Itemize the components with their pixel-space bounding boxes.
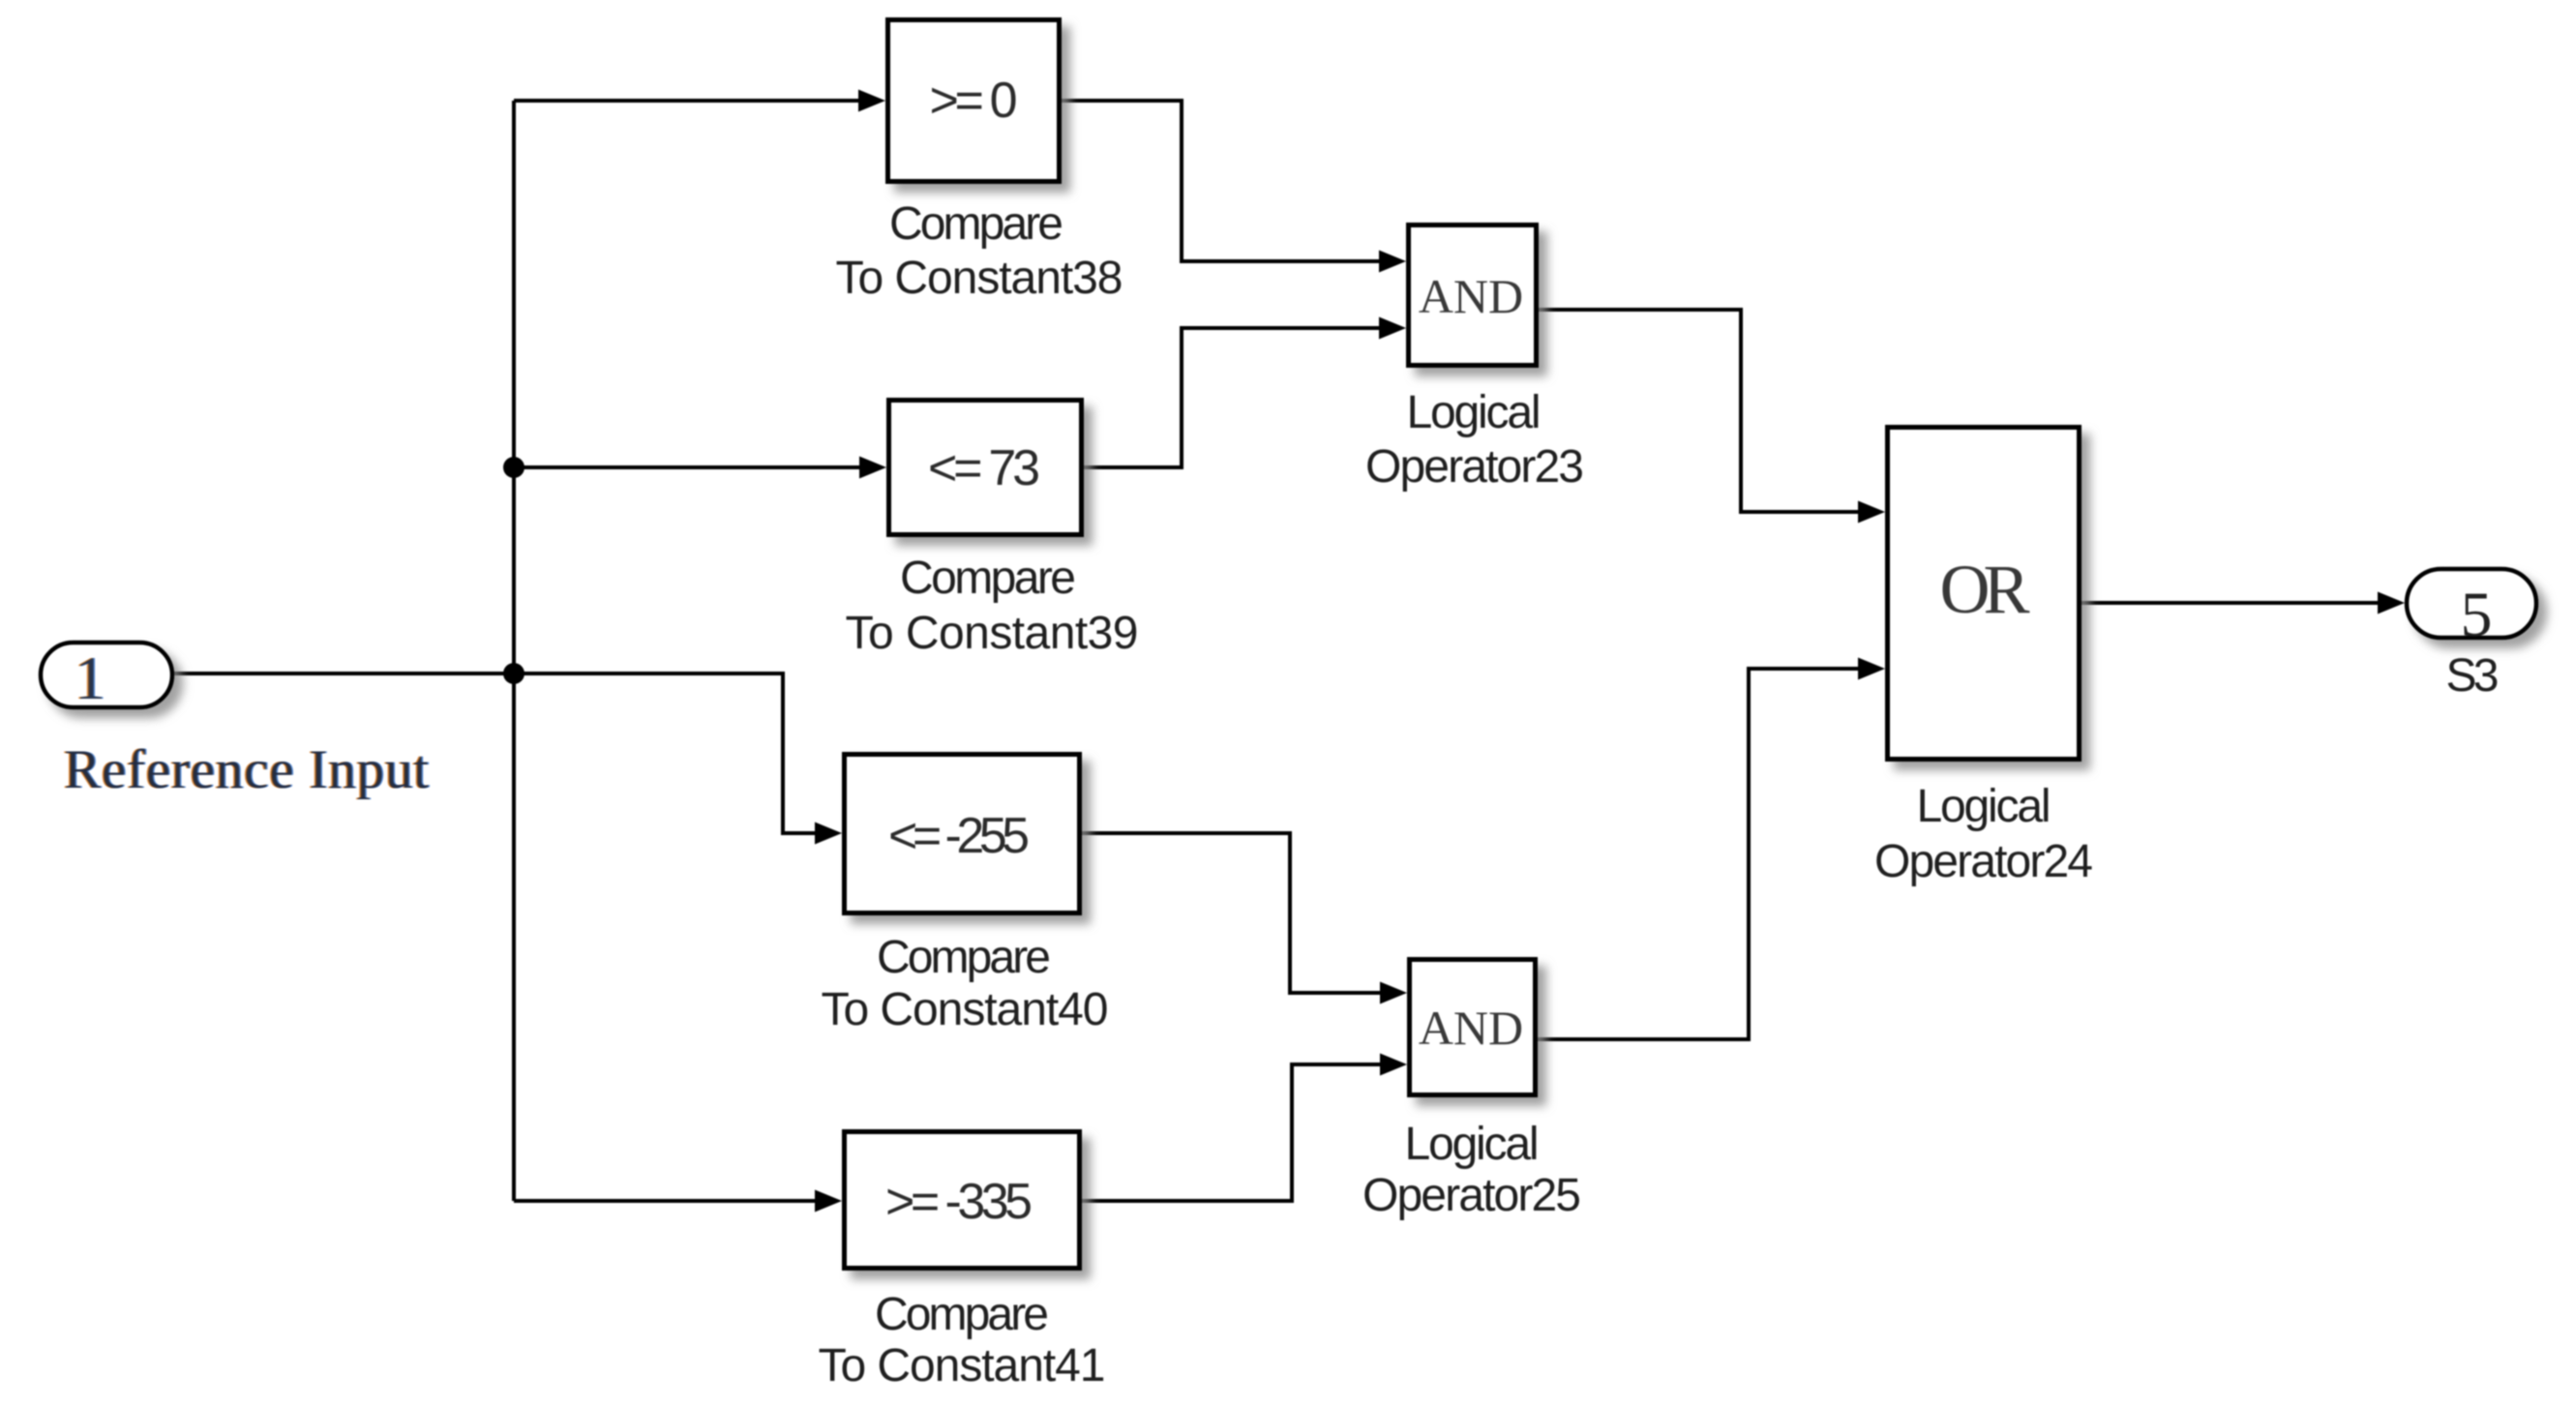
- svg-text:OR: OR: [1940, 551, 2030, 628]
- block Logical Operator23 AND: [1409, 225, 1537, 366]
- input port 1 oval: [41, 643, 172, 707]
- wire: trunk to Compare To Constant38: [514, 99, 860, 103]
- arrowhead into Compare40: [815, 823, 842, 845]
- wire: trunk to Compare To Constant39: [514, 465, 861, 469]
- wire: Compare41 out to AND25 in2: [1082, 1064, 1382, 1201]
- block Compare To Constant40: [845, 755, 1080, 913]
- svg-text:To Constant40: To Constant40: [822, 984, 1109, 1035]
- arrowhead into Compare41: [815, 1190, 842, 1212]
- wire: Compare39 out to AND23 in2: [1084, 328, 1381, 467]
- svg-text:Logical: Logical: [1407, 387, 1542, 438]
- block Compare To Constant38: [888, 20, 1060, 182]
- svg-text:Operator24: Operator24: [1874, 836, 2093, 887]
- svg-text:Compare: Compare: [889, 198, 1063, 250]
- svg-text:To Constant41: To Constant41: [819, 1340, 1106, 1392]
- wire: OR24 out to output port: [2082, 601, 2380, 605]
- svg-text:To Constant39: To Constant39: [846, 608, 1139, 659]
- arrowhead into Compare39: [859, 457, 886, 479]
- svg-text:AND: AND: [1419, 1001, 1523, 1055]
- svg-text:Reference Input: Reference Input: [64, 739, 429, 800]
- block Logical Operator24 OR: [1888, 428, 2080, 760]
- svg-text:Operator25: Operator25: [1363, 1170, 1581, 1221]
- wire: Compare38 out to AND23 in1: [1062, 101, 1381, 261]
- block Compare To Constant41: [845, 1132, 1080, 1269]
- svg-text:>= 0: >= 0: [930, 73, 1018, 129]
- output port 5 oval: [2407, 569, 2536, 638]
- wire: input port to main junction: [174, 672, 514, 675]
- wire: AND25 out to OR24 in2: [1538, 669, 1860, 1039]
- svg-text:5: 5: [2461, 580, 2493, 650]
- svg-text:Logical: Logical: [1917, 781, 2052, 832]
- arrowhead into Compare38: [858, 90, 885, 112]
- svg-text:Compare: Compare: [900, 553, 1076, 604]
- junction node at trunk/Compare39 branch: [503, 457, 524, 478]
- svg-text:S3: S3: [2446, 650, 2500, 702]
- arrowhead into AND25 in1: [1380, 982, 1407, 1004]
- arrowhead into OR24 in1: [1858, 501, 1885, 524]
- arrowhead into AND25 in2: [1380, 1054, 1407, 1076]
- svg-text:1: 1: [75, 644, 105, 712]
- wire: trunk to Compare To Constant40: [514, 674, 817, 833]
- svg-text:Logical: Logical: [1405, 1119, 1540, 1170]
- svg-text:To Constant38: To Constant38: [836, 253, 1123, 304]
- svg-text:>= -335: >= -335: [885, 1174, 1033, 1230]
- wire: Compare40 out to AND25 in1: [1082, 833, 1382, 993]
- svg-text:<= 73: <= 73: [928, 440, 1040, 496]
- block Logical Operator25 AND: [1410, 960, 1536, 1095]
- svg-text:Compare: Compare: [877, 932, 1051, 983]
- wire: main vertical trunk: [512, 101, 516, 1201]
- svg-text:Operator23: Operator23: [1365, 441, 1584, 493]
- junction node at trunk/input line: [503, 663, 524, 684]
- svg-text:Compare: Compare: [875, 1289, 1049, 1340]
- wire: trunk to Compare To Constant41: [514, 1199, 817, 1203]
- arrowhead into AND23 in2: [1379, 317, 1406, 340]
- arrowhead into output port: [2378, 592, 2405, 614]
- wire: AND23 out to OR24 in1: [1539, 310, 1860, 512]
- svg-text:<= -255: <= -255: [888, 808, 1030, 864]
- block Compare To Constant39: [889, 401, 1082, 535]
- arrowhead into OR24 in2: [1858, 658, 1885, 680]
- svg-text:AND: AND: [1419, 269, 1523, 323]
- arrowhead into AND23 in1: [1379, 251, 1406, 273]
